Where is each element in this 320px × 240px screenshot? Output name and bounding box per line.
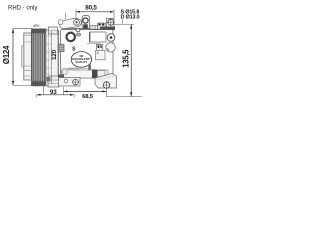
- right foot bolt symbol: [103, 82, 109, 88]
- small bolt head lower: [76, 33, 80, 36]
- dimension 68,5 line: [64, 90, 107, 92]
- bottom rail right block: [98, 71, 106, 78]
- right block under connector: [96, 50, 106, 60]
- dimension 80,5 extension right: [113, 9, 115, 19]
- body panel rect: [90, 32, 107, 42]
- dimension Ø124 extension line top: [13, 28, 33, 30]
- dark stub below oval: [88, 65, 91, 74]
- top-left lug bolt hole: [74, 19, 80, 25]
- S port boss: [82, 16, 90, 30]
- right side port circle lower: [106, 43, 115, 52]
- pulley bottom band: [32, 82, 47, 86]
- dimension 80,5 arrow left: [76, 11, 80, 13]
- dimension 135,5 arrow top: [130, 24, 132, 28]
- bottom-left dark block: [58, 75, 64, 82]
- pulley ribs: [33, 33, 44, 82]
- small bolt head upper: [76, 28, 80, 32]
- rear center boss ring: [67, 33, 75, 41]
- dimension Ø124 arrow bottom: [12, 81, 14, 85]
- svg-text:68,5: 68,5: [82, 94, 94, 100]
- left edge block: [58, 45, 64, 52]
- clutch plate (side view): [24, 33, 32, 80]
- small tab top-left: [64, 13, 66, 19]
- D port block: [98, 23, 105, 30]
- small label rect on body: [69, 68, 79, 73]
- dimension 68,5 extension left: [63, 87, 65, 95]
- dimension 135,5 extension bottom: [106, 88, 142, 96]
- rear view main body: [61, 29, 114, 79]
- svg-text:Ø124: Ø124: [2, 45, 11, 64]
- svg-text:QUALITY: QUALITY: [76, 60, 88, 64]
- svg-text:80,5: 80,5: [85, 5, 97, 12]
- dimension 135,5 arrow bottom: [130, 92, 132, 96]
- right foot: [95, 74, 117, 89]
- body top edge dark band: [100, 27, 115, 31]
- dimension 80,5 line: [76, 11, 114, 13]
- dimension 80,5 extension left: [75, 9, 77, 18]
- left foot bolt symbol: [73, 79, 79, 85]
- top-right mounting lug: [107, 18, 115, 27]
- body bottom block (side view): [48, 76, 59, 87]
- dimension 135,5 extension top: [115, 23, 135, 25]
- dimension 93 extension: [42, 86, 44, 95]
- pulley bottom teeth: [34, 86, 45, 87]
- dimension 80,5 arrow right: [110, 11, 114, 13]
- leader D label: [122, 20, 124, 25]
- dimension 93 arrow left: [37, 94, 41, 96]
- body top boss (side view): [48, 27, 57, 34]
- leader 6PK: [39, 28, 41, 31]
- dimension 68,5 arrow right: [102, 90, 106, 92]
- rear view left edge line: [58, 30, 60, 78]
- svg-text:RHD - only: RHD - only: [8, 5, 37, 11]
- block between S and D ports: [90, 25, 98, 29]
- dimension 135,5 line: [130, 24, 132, 96]
- pulley (side view, ribbed): [32, 29, 47, 86]
- dimension 68,5 arrow left: [64, 90, 68, 92]
- top-left mounting lug: [60, 19, 82, 29]
- dimension 93 arrow right: [70, 94, 74, 96]
- connector block: [97, 44, 103, 50]
- oval OE sticker: [71, 52, 91, 68]
- compressor body (side view sliver): [46, 30, 58, 86]
- svg-text:120: 120: [51, 49, 58, 60]
- dimension Ø124 arrow top: [12, 29, 14, 33]
- left foot bar: [59, 78, 81, 87]
- left foot small hole: [64, 79, 68, 83]
- dimension 93 line: [37, 94, 75, 96]
- dimension Ø124 extension line bottom: [13, 85, 44, 87]
- svg-text:D: D: [107, 48, 110, 52]
- bottom rail: [62, 70, 109, 78]
- svg-text:135,5: 135,5: [121, 49, 130, 68]
- svg-text:D Ø13.0: D Ø13.0: [121, 14, 140, 20]
- bottom rail dark block: [92, 70, 97, 79]
- dimension Ø124 line: [12, 29, 14, 85]
- svg-text:6PK: 6PK: [34, 24, 41, 28]
- right side port circle upper: [107, 34, 115, 42]
- top-right lug bolt symbol: [108, 19, 114, 25]
- dimension 120 line: [51, 31, 53, 84]
- pulley top band: [32, 29, 47, 33]
